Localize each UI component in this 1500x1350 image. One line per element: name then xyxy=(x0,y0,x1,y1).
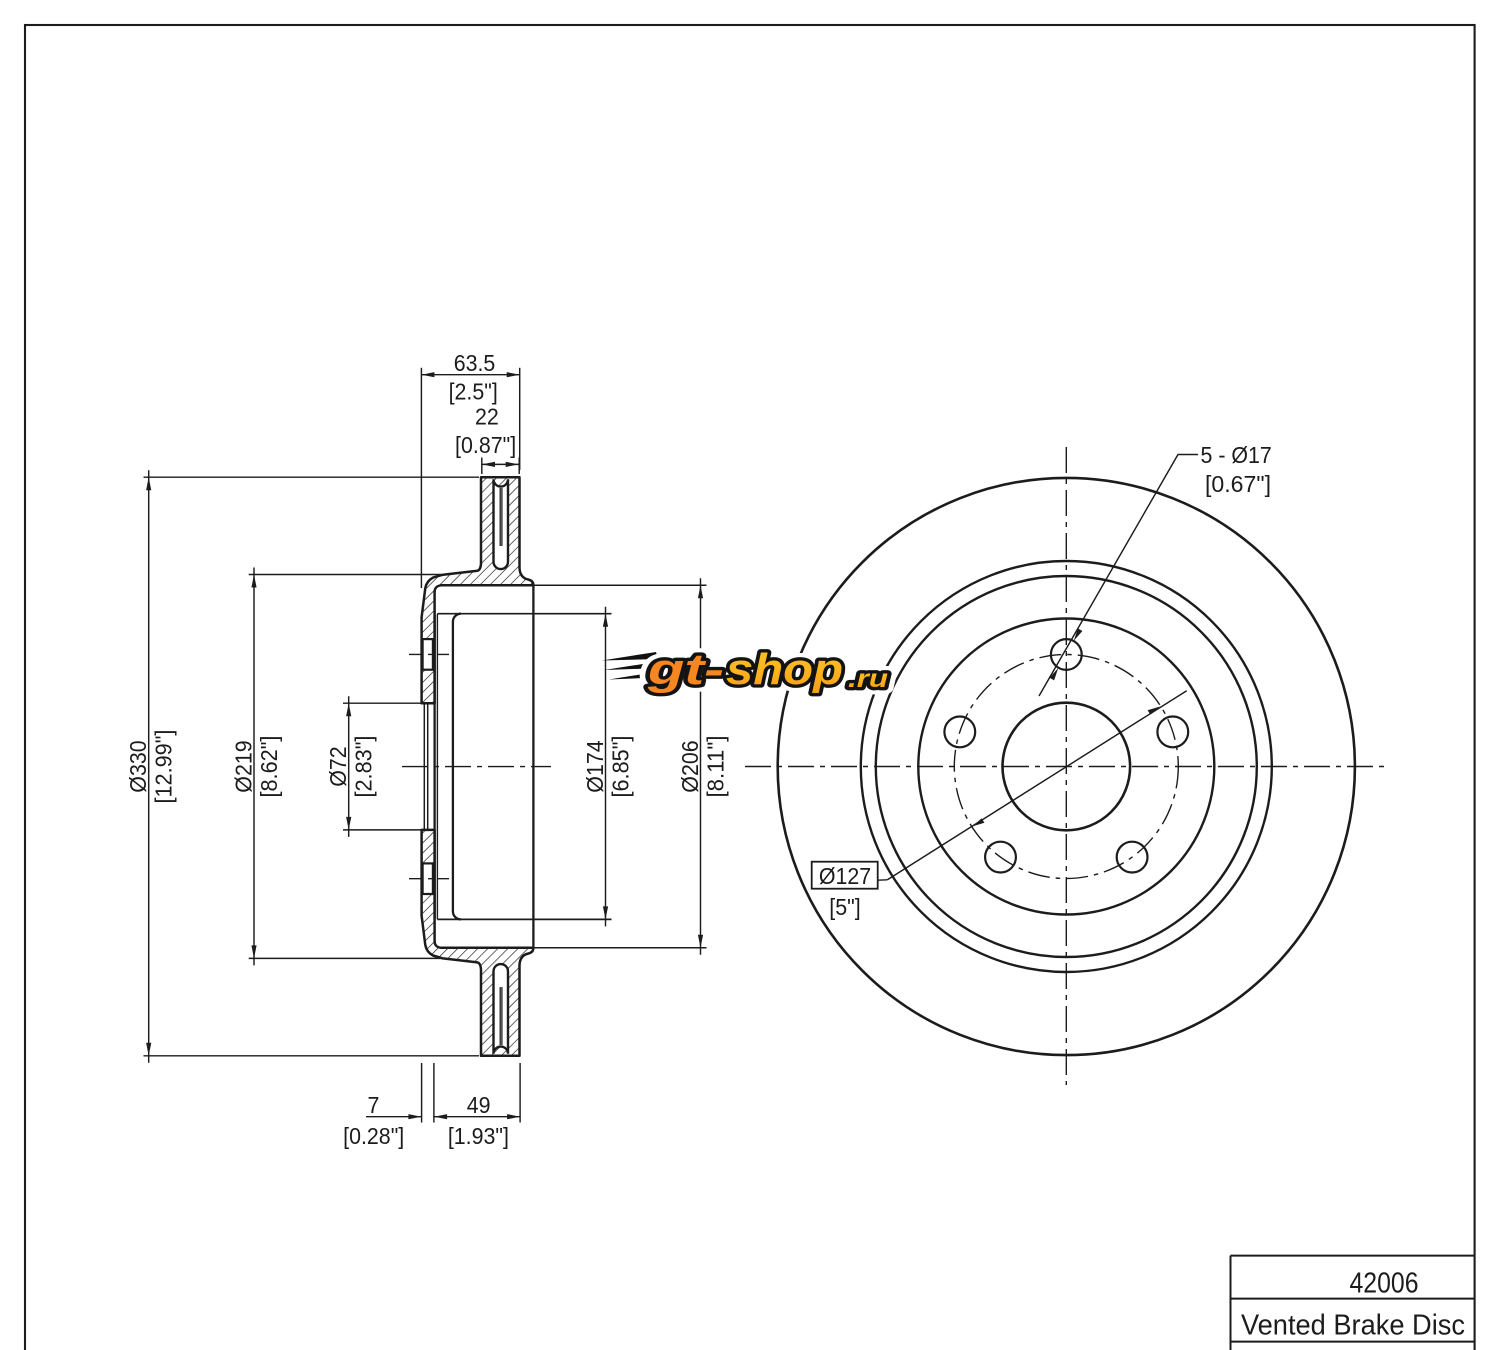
svg-text:[6.85"]: [6.85"] xyxy=(608,736,634,798)
svg-text:Ø127: Ø127 xyxy=(819,863,871,889)
front view center bore O72 xyxy=(1003,703,1131,831)
stud hole 3 xyxy=(1117,842,1148,873)
extension line O219 top xyxy=(249,574,442,576)
extension line 63.5 right xyxy=(519,368,521,470)
5-O17 leader line xyxy=(1039,455,1198,697)
svg-text:Ø219: Ø219 xyxy=(231,740,257,792)
svg-text:[0.67"]: [0.67"] xyxy=(1205,471,1271,497)
section view: friction ring and hat cut region (hatched) top half xyxy=(422,477,534,703)
svg-text:gt-: gt- xyxy=(647,645,724,694)
stud hole centerline lower xyxy=(409,878,449,880)
vent slot in bottom friction ring xyxy=(494,964,509,1054)
title block xyxy=(1231,1256,1475,1350)
extension line O219 bottom xyxy=(249,957,442,959)
svg-text:Ø174: Ø174 xyxy=(582,740,608,792)
drum outer face rear edge (flange back) xyxy=(433,615,435,918)
svg-text:[5"]: [5"] xyxy=(829,894,860,920)
stud hole 2 xyxy=(1157,717,1188,748)
O127 label box xyxy=(812,862,878,889)
section view: cut region bottom half (mirror) xyxy=(422,830,534,1056)
svg-text:Ø206: Ø206 xyxy=(677,740,703,792)
drum inner surface top edge / O174 extension xyxy=(437,613,611,615)
svg-text:[2.5"]: [2.5"] xyxy=(449,378,498,404)
stud hole 1 xyxy=(1051,639,1082,670)
svg-text:[8.62"]: [8.62"] xyxy=(256,736,282,798)
dimension line O72 xyxy=(348,696,350,837)
svg-text:[1.93"]: [1.93"] xyxy=(448,1123,509,1149)
svg-text:shop: shop xyxy=(726,645,843,694)
stud hole centerline upper xyxy=(409,653,449,655)
vent vane edge lines behind top slot xyxy=(499,488,501,546)
front view vertical centerline xyxy=(1065,447,1067,1085)
svg-text:63.5: 63.5 xyxy=(454,350,496,376)
svg-text:42006: 42006 xyxy=(1350,1267,1419,1299)
extension line O330 bottom xyxy=(144,1055,480,1057)
dimension line O330 xyxy=(148,470,150,1063)
front view hat outer circle O219 xyxy=(876,576,1257,957)
svg-text:22: 22 xyxy=(475,404,499,430)
O127 dimension diagonal line xyxy=(887,691,1186,880)
drum outer surface top edge / O206 extension xyxy=(533,584,706,586)
vent vane edge lines behind bottom slot xyxy=(499,987,501,1045)
dimension line O206 xyxy=(700,578,702,955)
extension line 22 left xyxy=(481,458,483,475)
front view friction ring inner circle xyxy=(861,561,1272,972)
svg-text:Ø330: Ø330 xyxy=(125,740,151,792)
dimension line O219 xyxy=(253,568,255,966)
drum inner closed end (O174 bottom) with corner fillets xyxy=(453,614,461,920)
dimension line 63.5 xyxy=(421,374,519,376)
drum outer cylinder right edge (O206) xyxy=(532,585,534,948)
front view drum circle O174 xyxy=(918,619,1214,915)
stud hole 4 xyxy=(985,842,1016,873)
svg-text:.ru: .ru xyxy=(848,665,888,693)
dimension line 7 xyxy=(366,1116,421,1118)
svg-text:5 - Ø17: 5 - Ø17 xyxy=(1201,442,1272,468)
dimension line 49 xyxy=(434,1116,520,1118)
section horizontal centerline xyxy=(402,766,551,768)
logo speed lines xyxy=(602,652,670,680)
drum outer surface bottom edge / O206 extension xyxy=(533,947,706,949)
drum inner surface bottom edge / O174 extension xyxy=(437,918,611,920)
dimension line 22 xyxy=(482,463,519,465)
hub pilot bore edge lines through O72 hole xyxy=(423,703,425,830)
svg-text:[8.11"]: [8.11"] xyxy=(703,736,729,798)
dimension line O174 xyxy=(605,607,607,927)
extension line 7 right/49 left xyxy=(433,1063,435,1123)
extension line 49 right xyxy=(519,1063,521,1123)
svg-text:49: 49 xyxy=(467,1092,491,1118)
wheel stud hole (lower) in section xyxy=(423,863,433,894)
front view horizontal centerline xyxy=(745,766,1390,768)
svg-text:Ø72: Ø72 xyxy=(325,746,351,786)
drum closed-end outer edge line xyxy=(436,614,438,920)
svg-text:[0.28"]: [0.28"] xyxy=(343,1123,404,1149)
extension line 7 left xyxy=(421,1063,423,1123)
extension line O330 top xyxy=(144,476,480,478)
svg-text:[0.87"]: [0.87"] xyxy=(455,432,516,458)
svg-text:[2.83"]: [2.83"] xyxy=(351,736,377,798)
extension line 22 right xyxy=(518,458,520,475)
extension line O72 bottom xyxy=(343,829,435,831)
stud hole 5 xyxy=(944,717,975,748)
extension line 63.5 left xyxy=(420,368,422,588)
front view outer circle O330 xyxy=(778,478,1355,1055)
wheel stud hole (upper) in section xyxy=(423,639,433,670)
extension line O72 top xyxy=(343,702,422,704)
svg-text:[12.99"]: [12.99"] xyxy=(151,730,177,804)
vent slot in top friction ring xyxy=(494,479,509,569)
bolt circle O127 (dash-dot) xyxy=(954,655,1178,879)
svg-text:7: 7 xyxy=(367,1092,379,1118)
svg-text:Vented Brake Disc: Vented Brake Disc xyxy=(1241,1309,1465,1341)
